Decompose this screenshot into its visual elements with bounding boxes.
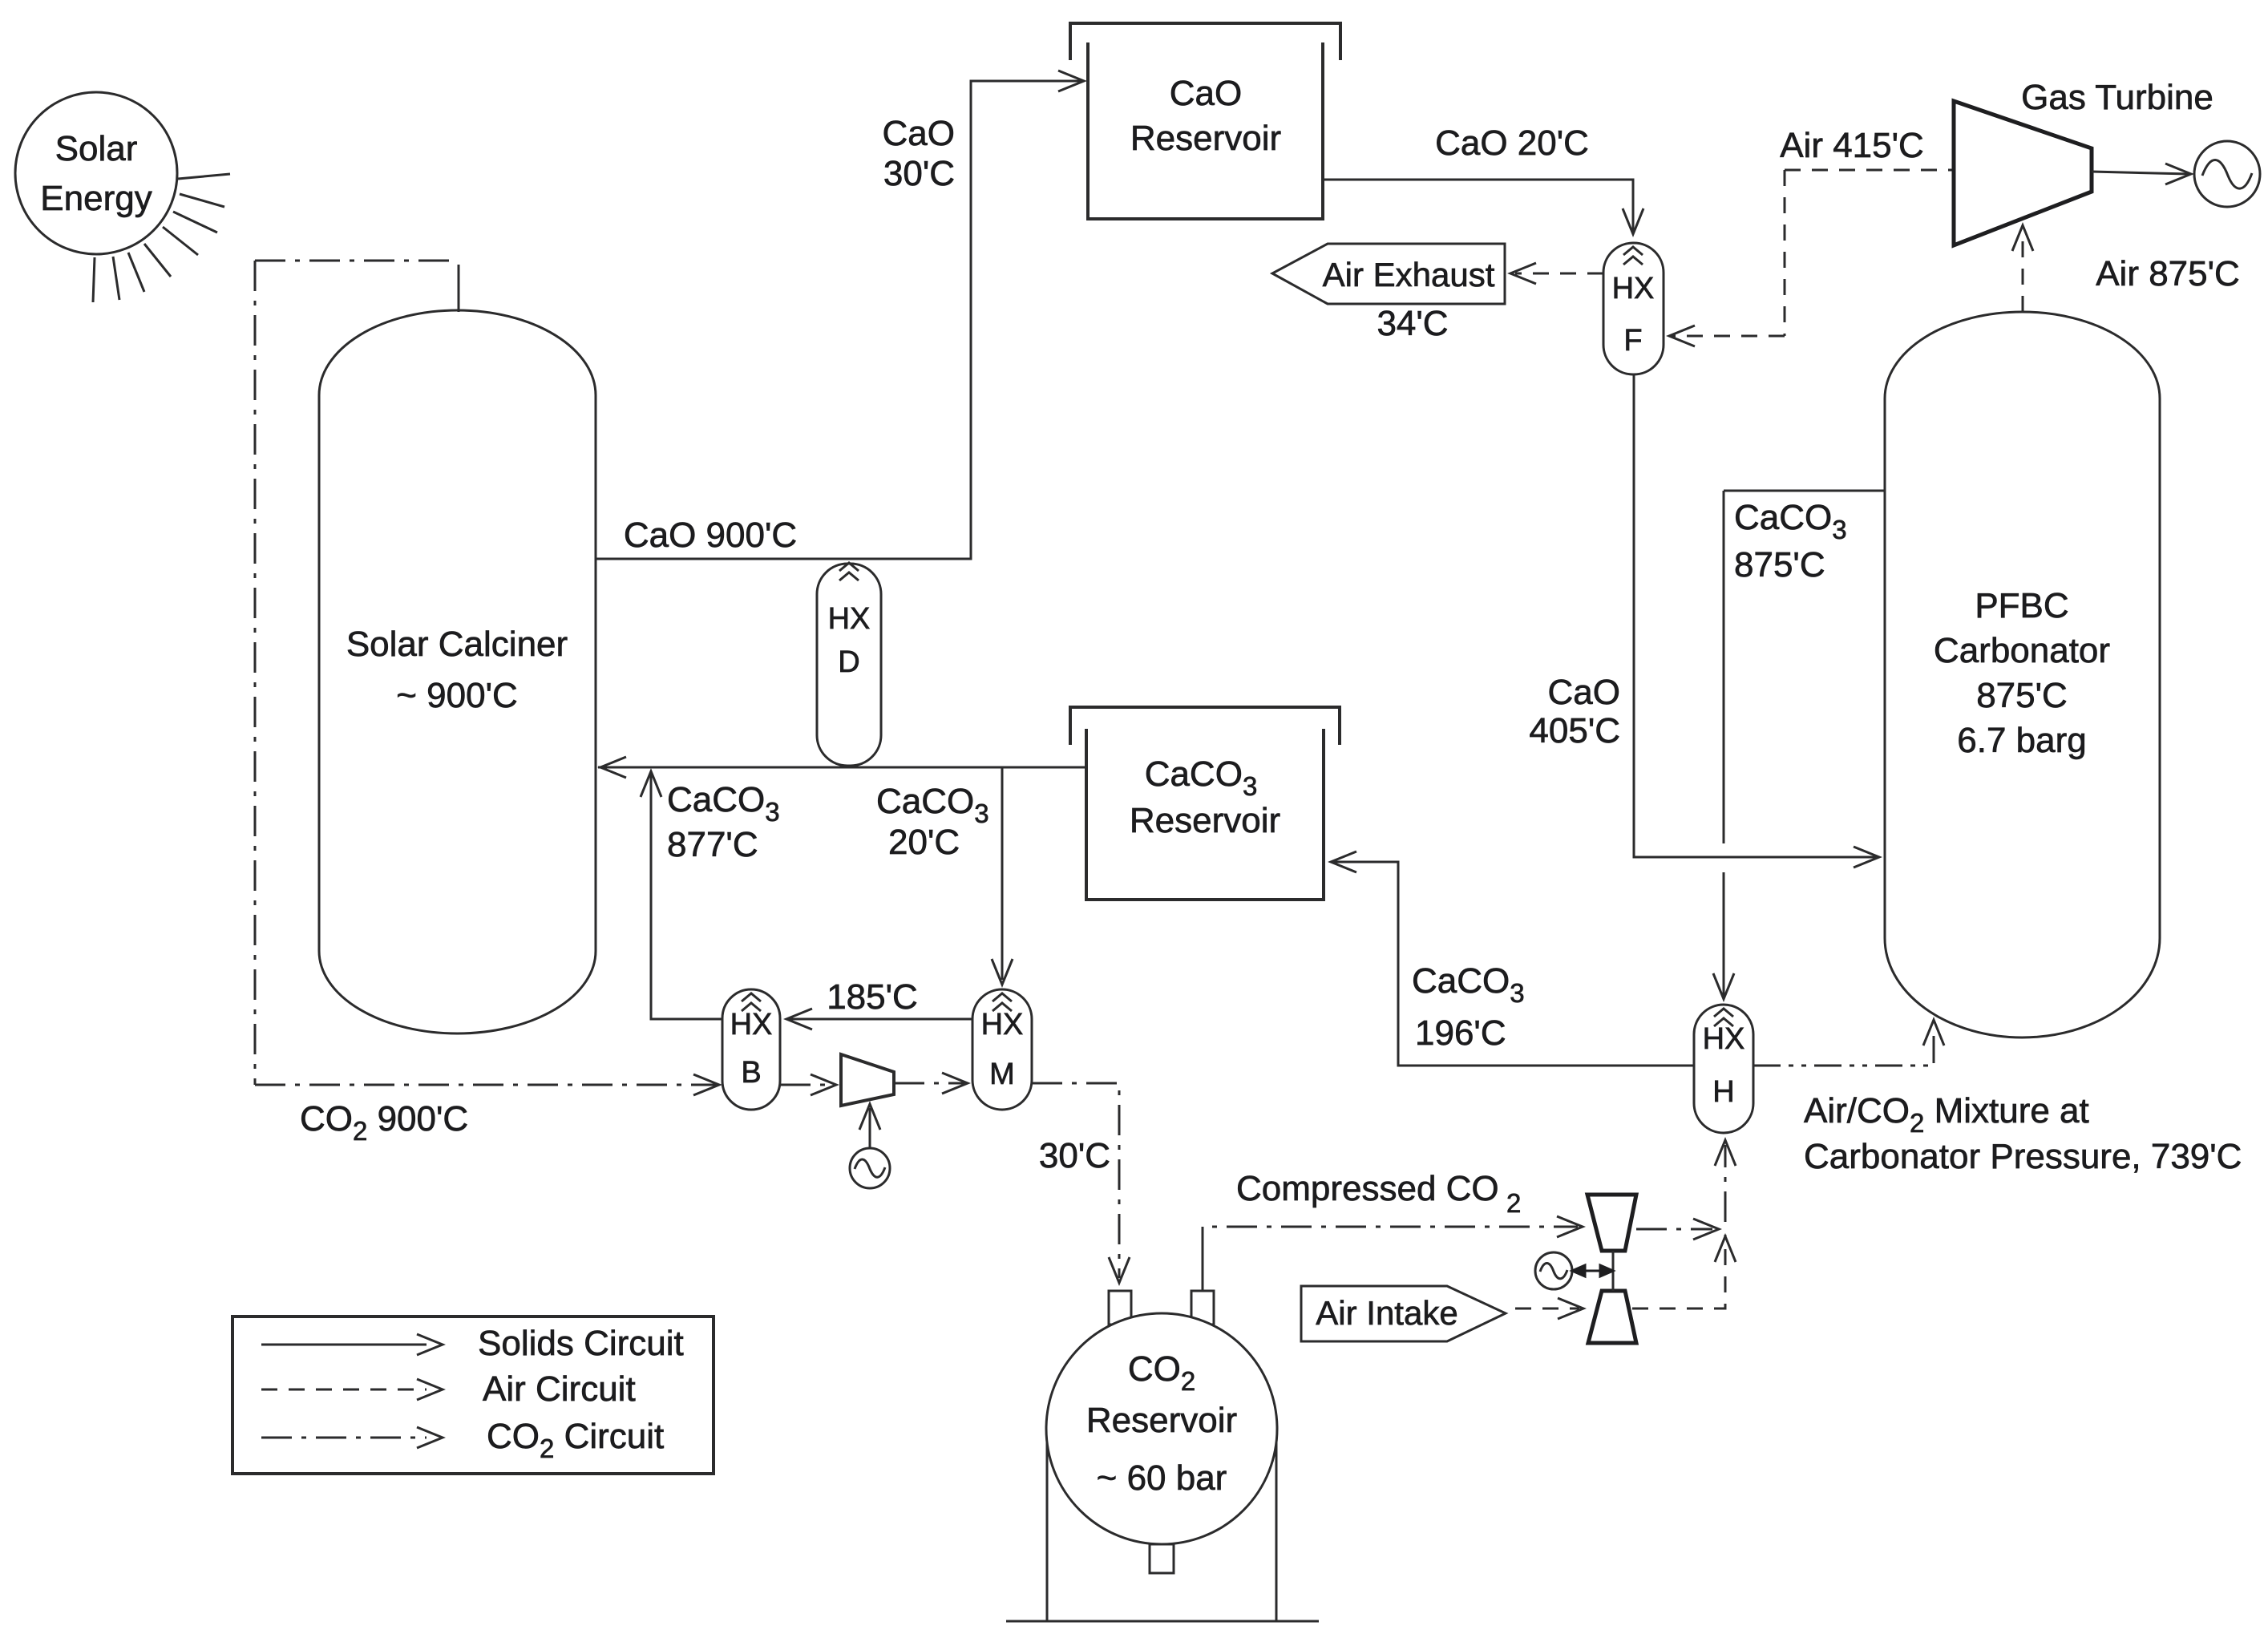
svg-text:CaO: CaO [1548, 673, 1620, 712]
svg-text:877'C: 877'C [667, 825, 758, 864]
svg-text:Solar: Solar [55, 129, 138, 168]
svg-text:HX: HX [828, 602, 871, 636]
svg-text:Reservoir: Reservoir [1130, 119, 1281, 158]
svg-text:Carbonator: Carbonator [1934, 631, 2110, 670]
svg-text:M: M [989, 1058, 1015, 1091]
svg-text:30'C: 30'C [883, 154, 955, 193]
svg-text:Compressed CO: Compressed CO [1236, 1169, 1499, 1208]
svg-text:CaO 20'C: CaO 20'C [1435, 123, 1589, 163]
svg-text:H: H [1712, 1075, 1734, 1109]
svg-text:Reservoir: Reservoir [1130, 801, 1280, 840]
svg-text:30'C: 30'C [1039, 1136, 1110, 1175]
svg-text:875'C: 875'C [1976, 676, 2068, 715]
svg-text:CaO: CaO [883, 114, 955, 153]
svg-text:875'C: 875'C [1734, 545, 1825, 584]
svg-text:405'C: 405'C [1529, 711, 1620, 750]
svg-text:Air Circuit: Air Circuit [483, 1369, 636, 1409]
svg-text:HX: HX [730, 1008, 773, 1042]
svg-text:Carbonator Pressure, 739'C: Carbonator Pressure, 739'C [1804, 1137, 2242, 1176]
svg-text:B: B [741, 1056, 761, 1090]
svg-text:Air Exhaust: Air Exhaust [1323, 256, 1495, 293]
svg-text:HX: HX [981, 1008, 1024, 1042]
svg-text:Gas Turbine: Gas Turbine [2021, 78, 2213, 117]
svg-text:2: 2 [1506, 1188, 1521, 1218]
svg-text:Air Intake: Air Intake [1316, 1294, 1457, 1332]
svg-text:HX: HX [1703, 1022, 1745, 1056]
svg-text:F: F [1623, 324, 1642, 358]
svg-text:D: D [838, 645, 859, 679]
svg-text:~ 60 bar: ~ 60 bar [1097, 1458, 1227, 1498]
svg-text:Reservoir: Reservoir [1086, 1401, 1237, 1440]
svg-text:Air 415'C: Air 415'C [1780, 126, 1924, 165]
svg-text:Air 875'C: Air 875'C [2096, 254, 2240, 293]
svg-text:34'C: 34'C [1377, 304, 1448, 343]
svg-text:20'C: 20'C [888, 823, 960, 862]
svg-text:185'C: 185'C [827, 977, 918, 1017]
svg-text:196'C: 196'C [1415, 1013, 1506, 1053]
svg-text:Solids Circuit: Solids Circuit [478, 1324, 684, 1363]
svg-text:CaO: CaO [1170, 74, 1242, 113]
svg-text:~ 900'C: ~ 900'C [396, 676, 518, 715]
svg-text:6.7 barg: 6.7 barg [1957, 721, 2086, 760]
svg-text:Solar Calciner: Solar Calciner [346, 625, 568, 664]
svg-text:HX: HX [1612, 272, 1655, 305]
svg-text:Energy: Energy [40, 179, 152, 218]
svg-text:CaO 900'C: CaO 900'C [624, 516, 797, 555]
svg-text:PFBC: PFBC [1975, 586, 2068, 625]
